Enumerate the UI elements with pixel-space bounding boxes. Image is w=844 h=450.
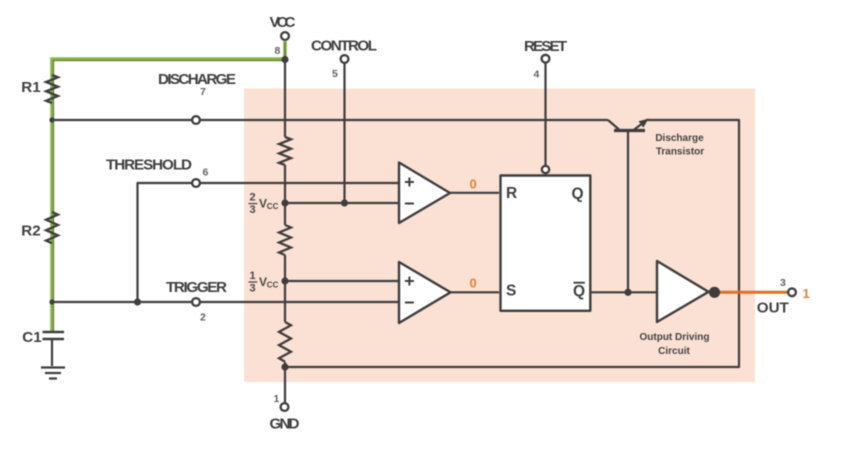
- svg-text:5: 5: [332, 68, 338, 80]
- svg-text:Output Driving: Output Driving: [640, 332, 710, 343]
- svg-text:CC: CC: [267, 202, 279, 211]
- svg-text:OUT: OUT: [757, 300, 790, 317]
- svg-text:7: 7: [200, 86, 206, 98]
- svg-text:1: 1: [250, 270, 256, 282]
- svg-text:Discharge: Discharge: [655, 133, 704, 144]
- svg-text:3: 3: [780, 277, 786, 289]
- svg-text:2: 2: [250, 192, 256, 204]
- svg-text:0: 0: [470, 177, 477, 192]
- svg-text:TRIGGER: TRIGGER: [166, 279, 227, 296]
- svg-text:C1: C1: [22, 329, 42, 346]
- svg-text:CONTROL: CONTROL: [311, 38, 377, 55]
- svg-text:Q: Q: [573, 283, 585, 300]
- svg-text:S: S: [506, 283, 516, 300]
- svg-text:1: 1: [803, 286, 810, 301]
- svg-text:0: 0: [470, 276, 477, 291]
- svg-text:2: 2: [200, 312, 206, 324]
- svg-text:8: 8: [275, 45, 281, 57]
- svg-text:VCC: VCC: [270, 14, 296, 31]
- svg-text:GND: GND: [270, 416, 300, 433]
- svg-text:CC: CC: [267, 281, 279, 290]
- svg-text:R2: R2: [21, 223, 40, 240]
- svg-text:DISCHARGE: DISCHARGE: [158, 71, 236, 88]
- svg-text:4: 4: [534, 69, 540, 81]
- svg-text:R: R: [506, 185, 517, 202]
- svg-text:3: 3: [250, 283, 256, 295]
- svg-text:Q: Q: [572, 185, 584, 202]
- svg-text:3: 3: [250, 204, 256, 216]
- svg-text:Transistor: Transistor: [656, 147, 704, 158]
- svg-text:Circuit: Circuit: [658, 346, 690, 357]
- svg-text:6: 6: [203, 167, 209, 179]
- svg-text:1: 1: [274, 393, 280, 405]
- svg-text:R1: R1: [21, 79, 41, 96]
- svg-text:RESET: RESET: [524, 38, 568, 55]
- svg-text:THRESHOLD: THRESHOLD: [106, 157, 192, 174]
